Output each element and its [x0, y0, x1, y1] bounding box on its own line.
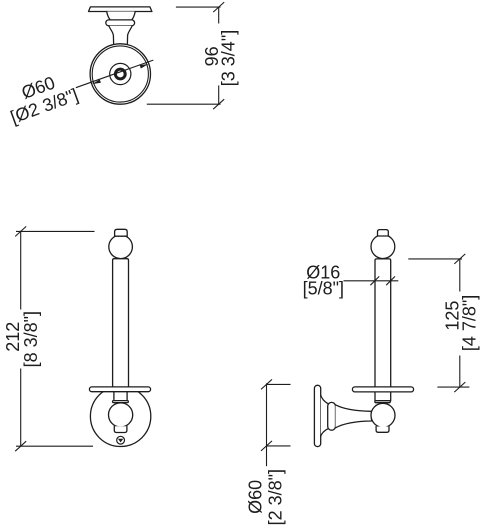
finial ball	[109, 235, 133, 259]
wall plate edge (top bar)	[89, 7, 152, 12]
extension line top	[16, 230, 95, 232]
tick bottom	[454, 382, 465, 392]
flange disc inner circle	[92, 46, 148, 102]
96 dimension (right of top view)	[147, 2, 224, 109]
tick top	[213, 2, 224, 12]
wall plate circle	[90, 386, 150, 446]
finial button	[115, 229, 128, 236]
extension line bottom	[147, 103, 221, 105]
collar on stub	[113, 401, 129, 403]
mount ball	[109, 403, 133, 427]
tick top	[261, 379, 272, 389]
trumpet neck	[109, 26, 132, 47]
extension line bottom	[16, 445, 93, 447]
middle circle	[110, 63, 131, 84]
svg-text:Ø60: Ø60	[246, 480, 266, 514]
bell below plate	[107, 12, 136, 21]
extension bottom	[437, 386, 469, 388]
svg-text:[3 3/4"]: [3 3/4"]	[219, 30, 239, 86]
screw	[117, 436, 125, 444]
extension line top	[176, 6, 221, 8]
212 dimension (left of front view)	[15, 226, 94, 451]
finial ball	[371, 235, 395, 259]
collar ring	[106, 20, 135, 26]
tick top	[454, 254, 465, 264]
tick bottom	[213, 99, 224, 109]
collar	[328, 402, 336, 430]
svg-text:[8 3/8"]: [8 3/8"]	[21, 311, 41, 367]
Ø60 dimension (bottom-left of side view)	[261, 379, 291, 466]
dim line lower	[459, 356, 461, 388]
finial button	[378, 230, 389, 236]
wall plate edge	[314, 385, 320, 446]
bell	[321, 395, 329, 436]
dimension line upper	[218, 7, 220, 23]
flange bar	[89, 387, 150, 392]
dimension line lower	[20, 369, 22, 447]
collar on post above ball	[375, 401, 390, 403]
svg-text:[5/8"]: [5/8"]	[303, 278, 344, 298]
tick left (post left edge)	[370, 276, 379, 285]
tick right (post right edge)	[386, 276, 395, 285]
screw boss ring	[115, 69, 125, 79]
tick top	[15, 226, 26, 236]
svg-text:[4 7/8"]: [4 7/8"]	[460, 295, 480, 351]
mount ball	[371, 403, 395, 427]
horn	[336, 405, 372, 428]
flange disc outer circle	[90, 44, 150, 104]
extension bottom	[267, 445, 291, 447]
diagonal dimension line Ø60	[76, 60, 154, 88]
bottom cap	[114, 426, 127, 432]
Ø16 dimension	[344, 276, 399, 285]
flange bar	[352, 387, 413, 392]
post stub below flange	[114, 392, 127, 401]
svg-text:[2 3/8"]: [2 3/8"]	[266, 469, 286, 525]
dim line upper	[459, 259, 461, 292]
arrowhead right	[140, 64, 149, 69]
tick bottom	[261, 441, 272, 451]
dimension line lower	[218, 86, 220, 105]
dimension line upper	[20, 231, 22, 309]
125 dimension (right side)	[408, 254, 469, 392]
post	[113, 259, 129, 388]
bottom cap	[376, 427, 389, 433]
tick bottom	[15, 441, 26, 451]
extension top	[408, 258, 462, 260]
dim line	[266, 383, 268, 466]
post	[375, 259, 391, 401]
arrowhead left	[92, 80, 101, 85]
extension top	[267, 383, 291, 385]
svg-text:212: 212	[3, 322, 23, 352]
